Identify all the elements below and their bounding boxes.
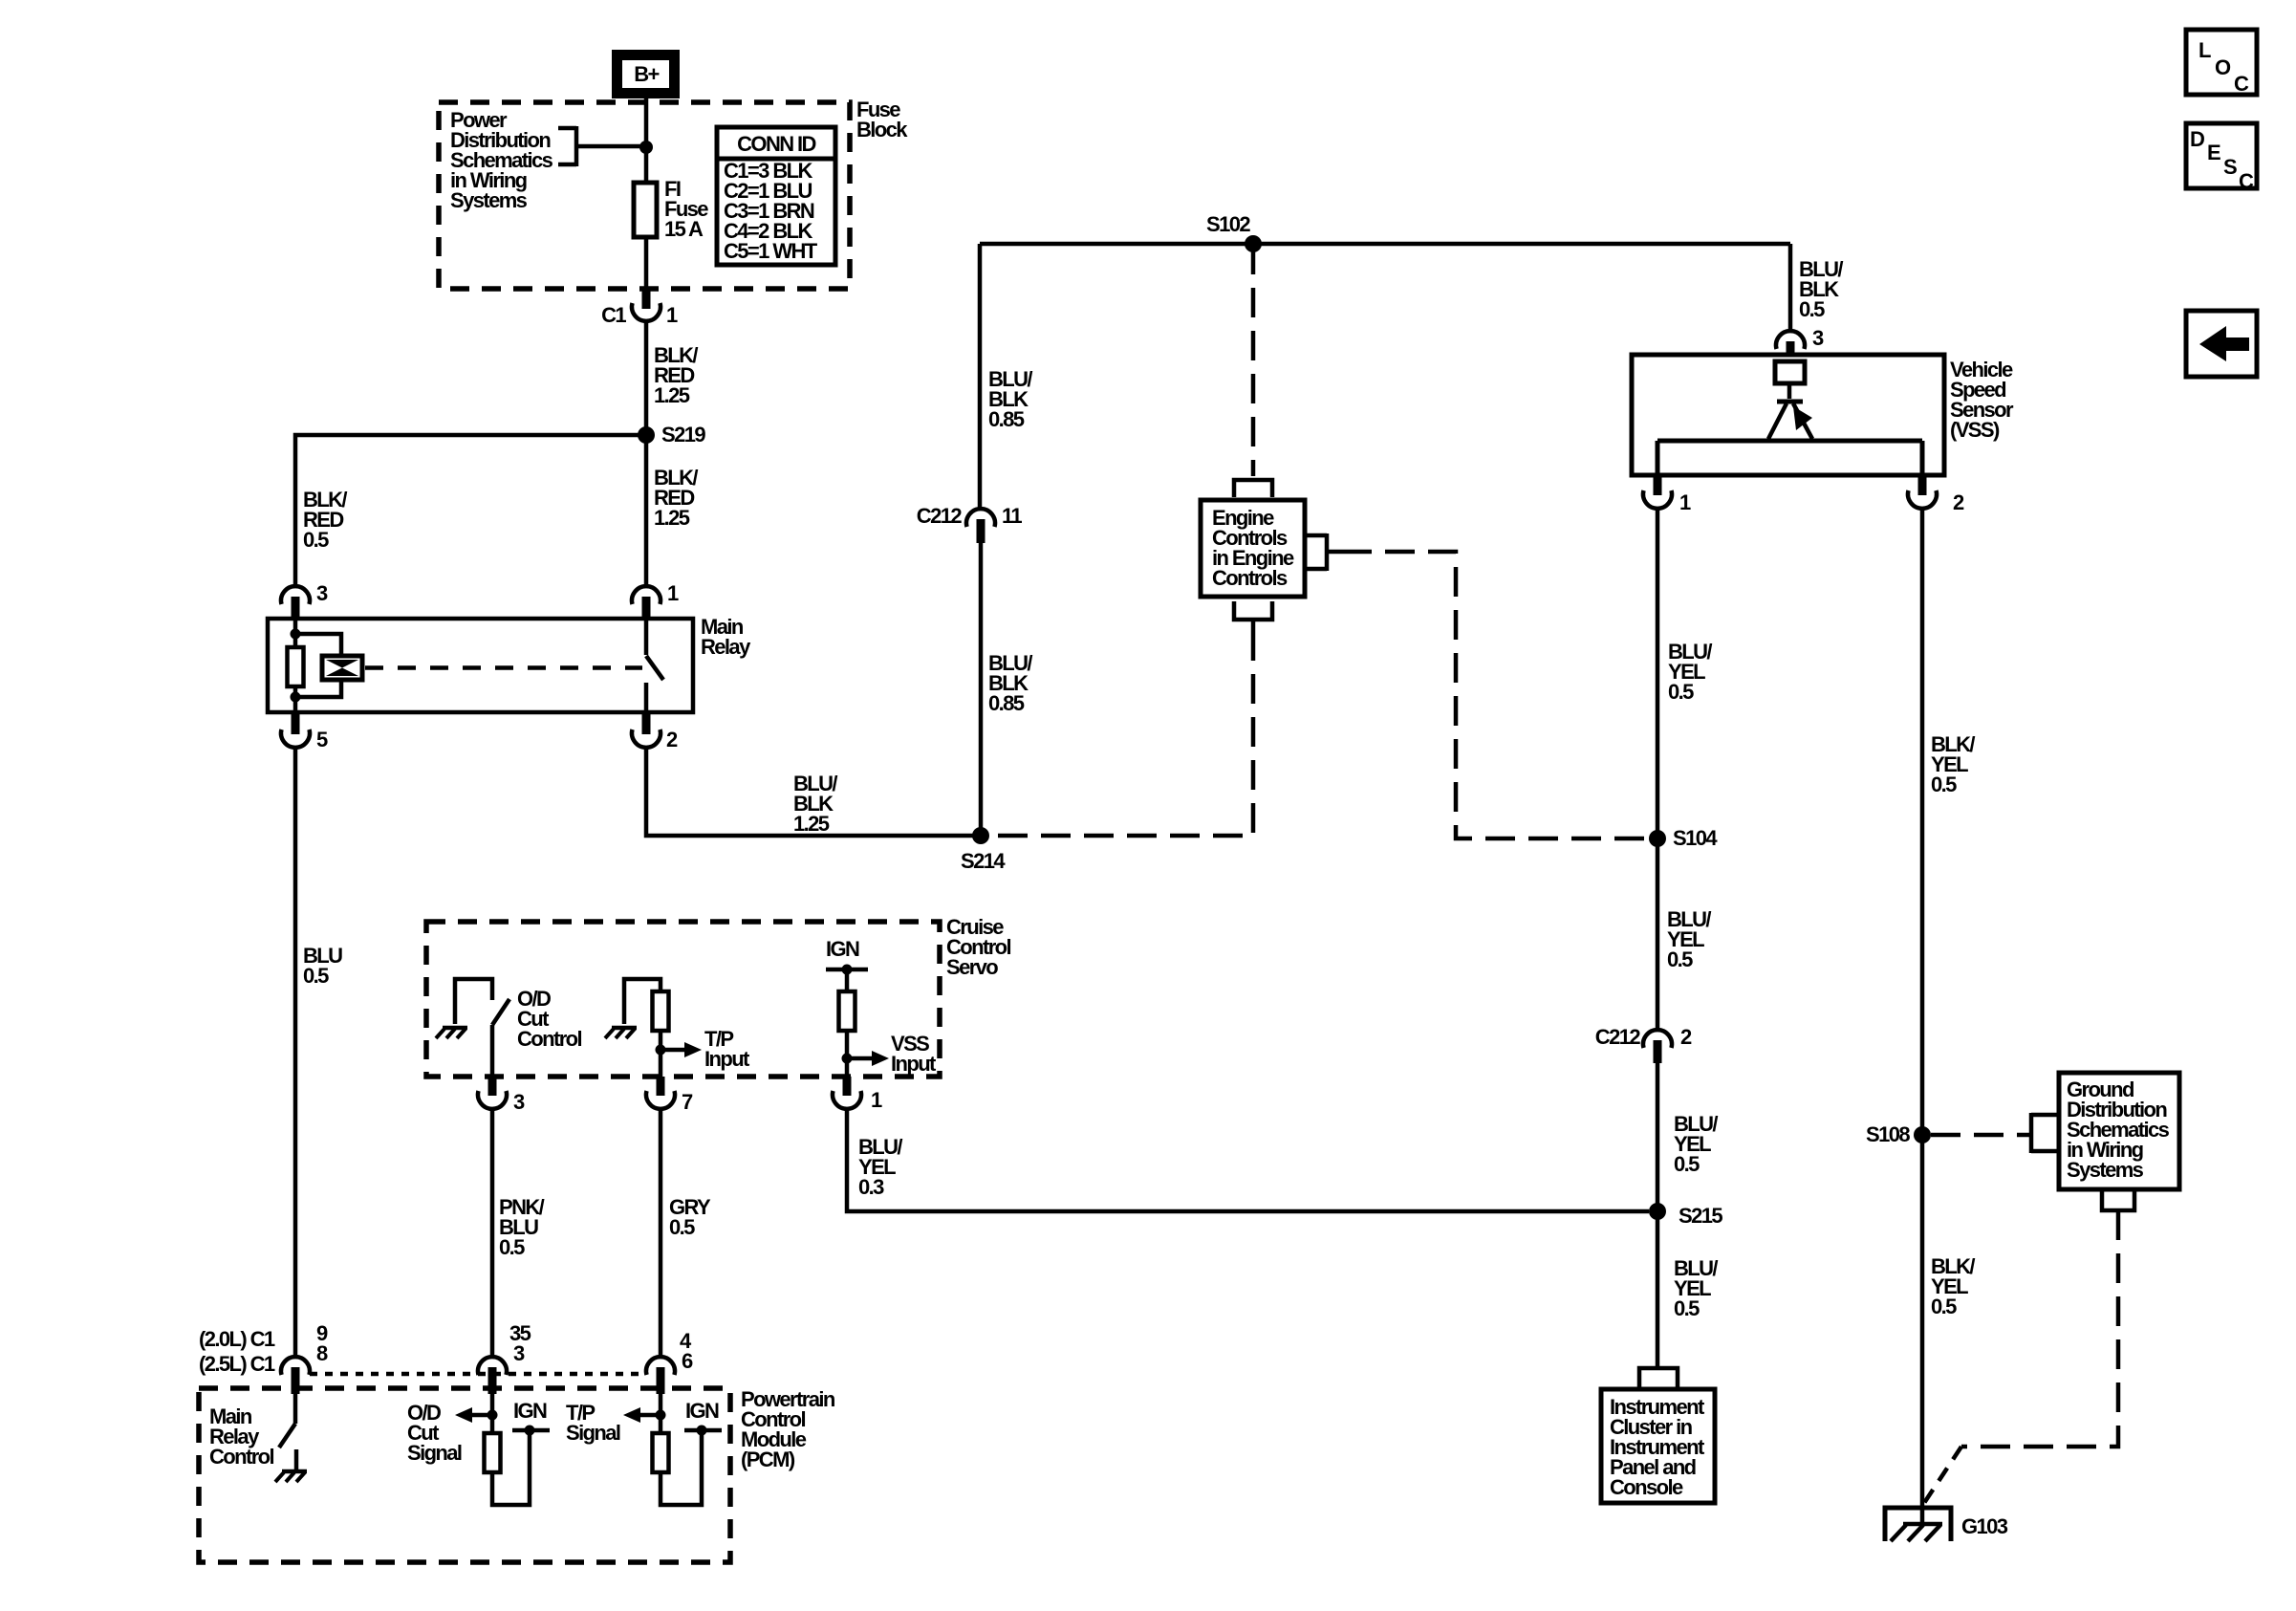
svg-text:Systems: Systems bbox=[2067, 1158, 2144, 1182]
connector pin 1 of main relay bbox=[632, 581, 679, 619]
svg-text:C212: C212 bbox=[917, 504, 963, 528]
wire relay pin 2 to S214, BLU/BLK 1.25 bbox=[646, 749, 981, 836]
svg-text:Servo: Servo bbox=[946, 955, 998, 979]
wire servo pin 3 to PCM 35/3, PNK/BLU 0.5 bbox=[490, 1110, 495, 1356]
PCM dashed box bbox=[199, 1388, 730, 1562]
dashed wire engine controls to S104 bbox=[1342, 552, 1649, 838]
wire servo pin 7 to PCM 4/6, GRY 0.5 bbox=[659, 1110, 663, 1356]
wire S215 to instrument cluster, BLU/YEL 0.5 bbox=[1656, 1211, 1660, 1368]
splice S215 bbox=[1649, 1203, 1666, 1220]
dashed actuation line bbox=[365, 665, 642, 670]
LOC box bbox=[2186, 30, 2257, 96]
wire VSS pin 2 to S108, BLK/YEL 0.5 bbox=[1920, 510, 1925, 1522]
svg-text:0.5: 0.5 bbox=[1799, 297, 1825, 321]
instrument cluster box bbox=[1601, 1389, 1715, 1503]
svg-text:C: C bbox=[2234, 72, 2249, 96]
svg-text:5: 5 bbox=[316, 728, 328, 751]
CONN ID table bbox=[717, 127, 835, 265]
connector pin 1 of VSS bbox=[1643, 475, 1691, 514]
label Vehicle Speed Sensor (VSS) bbox=[1950, 358, 2014, 442]
svg-text:Input: Input bbox=[891, 1052, 937, 1076]
label T/P Input bbox=[704, 1027, 750, 1071]
T/P input circuit bbox=[624, 979, 702, 1077]
svg-text:C: C bbox=[2239, 169, 2254, 193]
svg-text:3: 3 bbox=[513, 1090, 525, 1114]
svg-text:Signal: Signal bbox=[407, 1441, 462, 1465]
relay coil symbol (box with X) bbox=[322, 656, 362, 680]
svg-text:1.25: 1.25 bbox=[654, 383, 690, 407]
svg-text:1: 1 bbox=[1679, 490, 1691, 514]
ground distribution bracket bbox=[2031, 1113, 2057, 1153]
svg-text:3: 3 bbox=[513, 1341, 525, 1365]
dashed wire ground distribution to G103 bbox=[1961, 1210, 2118, 1447]
svg-text:B+: B+ bbox=[634, 62, 659, 86]
svg-text:Controls: Controls bbox=[1212, 566, 1288, 590]
reference bracket to power distribution bbox=[558, 126, 646, 166]
engine controls box bbox=[1201, 500, 1305, 597]
wire B+ to fuse bbox=[644, 96, 649, 183]
O/D cut control switch bbox=[455, 979, 509, 1077]
wire top bus BLU/BLK bbox=[980, 242, 1790, 247]
svg-text:C5=1 WHT: C5=1 WHT bbox=[724, 239, 818, 263]
dashed connector line C1 bbox=[310, 1372, 645, 1377]
svg-text:0.5: 0.5 bbox=[1931, 773, 1957, 796]
back arrow box bbox=[2186, 311, 2257, 377]
svg-text:L: L bbox=[2199, 38, 2211, 62]
svg-text:(2.5L) C1: (2.5L) C1 bbox=[199, 1352, 275, 1376]
svg-text:(PCM): (PCM) bbox=[741, 1448, 795, 1471]
svg-text:1: 1 bbox=[667, 581, 679, 605]
svg-text:0.5: 0.5 bbox=[303, 528, 329, 552]
node: junction dot on B+ feed bbox=[639, 141, 653, 154]
svg-text:CONN ID: CONN ID bbox=[737, 132, 815, 156]
wire C212/2 to S215, BLU/YEL 0.5 bbox=[1656, 1061, 1660, 1211]
svg-text:IGN: IGN bbox=[685, 1399, 719, 1423]
svg-text:S214: S214 bbox=[961, 849, 1006, 873]
O/D cut signal circuit bbox=[455, 1394, 550, 1505]
ground (O/D cut control) bbox=[436, 1028, 467, 1038]
VSS input circuit with IGN bbox=[826, 937, 889, 1077]
svg-text:1: 1 bbox=[871, 1088, 882, 1112]
connector pins 9/8 of PCM bbox=[281, 1321, 328, 1394]
connector C212 pin 2 bbox=[1595, 1025, 1692, 1063]
svg-text:3: 3 bbox=[316, 581, 328, 605]
cruise control servo dashed box bbox=[426, 922, 940, 1077]
dashed wire S102 down to engine controls bbox=[1251, 245, 1256, 476]
svg-text:Signal: Signal bbox=[566, 1421, 620, 1445]
label BLK/RED 0.5 bbox=[303, 488, 347, 552]
svg-text:6: 6 bbox=[682, 1349, 693, 1373]
splice S104 bbox=[1649, 830, 1666, 847]
svg-text:3: 3 bbox=[1812, 326, 1824, 350]
svg-text:S: S bbox=[2223, 155, 2237, 179]
label (2.0L) C1 / (2.5L) C1 bbox=[199, 1327, 275, 1376]
connector pin 3 of servo bbox=[478, 1077, 525, 1114]
wire C212/11 to S214, BLU/BLK 0.85 bbox=[979, 540, 984, 836]
svg-text:0.85: 0.85 bbox=[988, 691, 1025, 715]
svg-text:IGN: IGN bbox=[513, 1399, 547, 1423]
instrument cluster connector tab bbox=[1639, 1368, 1678, 1388]
label Cruise Control Servo bbox=[946, 915, 1010, 979]
engine controls bottom connector tab bbox=[1234, 601, 1272, 620]
svg-text:11: 11 bbox=[1002, 504, 1022, 528]
svg-text:2: 2 bbox=[666, 728, 678, 751]
connector C1 pin 1 bbox=[601, 290, 678, 327]
connector pins 4/6 of PCM bbox=[646, 1329, 693, 1394]
wire S104 to C212/2, BLU/YEL 0.5 bbox=[1656, 838, 1660, 1029]
connector pin 3 of VSS bbox=[1776, 326, 1824, 357]
wire relay pin 5 down, BLU 0.5 bbox=[293, 749, 298, 1356]
svg-text:C212: C212 bbox=[1595, 1025, 1641, 1049]
splice S214 bbox=[972, 827, 989, 844]
svg-text:S102: S102 bbox=[1206, 212, 1250, 236]
svg-text:7: 7 bbox=[682, 1090, 693, 1114]
svg-text:15 A: 15 A bbox=[664, 217, 704, 241]
svg-text:Block: Block bbox=[856, 118, 908, 142]
svg-text:0.5: 0.5 bbox=[1668, 680, 1694, 704]
fuse FI 15 A bbox=[634, 177, 708, 241]
connector pin 7 of servo bbox=[646, 1077, 693, 1114]
splice S102 bbox=[1245, 235, 1262, 252]
label T/P Signal bbox=[566, 1401, 620, 1445]
label VSS Input bbox=[891, 1032, 937, 1076]
connector pin 1 of servo bbox=[833, 1077, 882, 1112]
wire S219 branch left bbox=[295, 435, 646, 585]
svg-text:0.5: 0.5 bbox=[1674, 1152, 1700, 1176]
svg-text:S108: S108 bbox=[1866, 1122, 1910, 1146]
svg-text:S215: S215 bbox=[1679, 1204, 1722, 1228]
svg-text:Console: Console bbox=[1610, 1475, 1683, 1499]
engine controls top connector tab bbox=[1234, 480, 1272, 497]
label O/D Cut Signal bbox=[407, 1401, 462, 1465]
wire servo pin 1 to S215, BLU/YEL 0.3 bbox=[847, 1110, 1649, 1211]
ground (main relay control) bbox=[275, 1471, 307, 1482]
splice S108 bbox=[1914, 1126, 1931, 1143]
svg-text:0.5: 0.5 bbox=[1674, 1296, 1700, 1320]
svg-text:0.5: 0.5 bbox=[1931, 1295, 1957, 1318]
svg-text:0.5: 0.5 bbox=[1667, 947, 1693, 971]
svg-text:0.5: 0.5 bbox=[303, 964, 329, 988]
connector pin 2 of VSS bbox=[1908, 475, 1964, 514]
svg-text:(VSS): (VSS) bbox=[1950, 418, 2000, 442]
svg-text:E: E bbox=[2207, 141, 2220, 164]
connector pin 5 of main relay bbox=[281, 714, 328, 751]
wire S102 left leg down, BLU/BLK 0.85 bbox=[978, 244, 983, 508]
ground distribution box bbox=[2059, 1073, 2179, 1189]
ground (T/P input) bbox=[605, 1028, 637, 1038]
connector pin 3 of main relay bbox=[281, 581, 328, 619]
svg-text:2: 2 bbox=[1953, 490, 1964, 514]
connector pins 35/3 of PCM bbox=[478, 1321, 531, 1394]
relay coil circuit bbox=[288, 619, 342, 714]
main relay control switch bbox=[209, 1392, 296, 1469]
wire top bus to VSS pin 3, BLU/BLK 0.5 bbox=[1788, 244, 1793, 330]
wire S219 down to relay pin 1, BLK/RED 1.25 bbox=[644, 435, 649, 585]
svg-text:1.25: 1.25 bbox=[654, 506, 690, 530]
label Powertrain Control Module (PCM) bbox=[741, 1387, 835, 1471]
VSS pickup and transistor symbol bbox=[1657, 361, 1922, 475]
svg-text:0.5: 0.5 bbox=[499, 1235, 525, 1259]
svg-text:IGN: IGN bbox=[826, 937, 859, 961]
svg-text:Systems: Systems bbox=[450, 188, 528, 212]
svg-text:Input: Input bbox=[704, 1047, 750, 1071]
engine controls right bracket bbox=[1305, 533, 1342, 571]
svg-text:8: 8 bbox=[316, 1341, 328, 1365]
svg-text:O: O bbox=[2215, 55, 2231, 79]
svg-text:0.3: 0.3 bbox=[858, 1175, 884, 1199]
splice S219 bbox=[638, 426, 655, 444]
svg-text:G103: G103 bbox=[1961, 1514, 2008, 1538]
fuse block dashed box bbox=[439, 102, 850, 289]
svg-text:Control: Control bbox=[517, 1027, 581, 1051]
svg-text:C1: C1 bbox=[601, 303, 626, 327]
connector pin 2 of main relay bbox=[632, 714, 678, 751]
svg-text:0.5: 0.5 bbox=[669, 1215, 695, 1239]
T/P signal circuit bbox=[623, 1394, 722, 1505]
relay switch bbox=[646, 620, 663, 714]
dashed wire engine controls to S214 bbox=[1251, 620, 1256, 631]
connector C212 pin 11 bbox=[917, 504, 1023, 543]
svg-text:S219: S219 bbox=[661, 423, 705, 446]
svg-text:Relay: Relay bbox=[701, 635, 751, 659]
svg-text:1.25: 1.25 bbox=[793, 812, 830, 836]
wire C1 to S219, BLK/RED 1.25 bbox=[644, 322, 649, 435]
svg-text:D: D bbox=[2190, 127, 2204, 151]
dashed wire S108 to ground distribution bracket bbox=[1931, 1133, 2029, 1138]
svg-text:0.85: 0.85 bbox=[988, 407, 1025, 431]
main relay box bbox=[268, 619, 693, 712]
svg-text:(2.0L) C1: (2.0L) C1 bbox=[199, 1327, 275, 1351]
wire VSS pin 1 to S104, BLU/YEL 0.5 bbox=[1656, 510, 1660, 838]
ground distribution bottom tab bbox=[2102, 1189, 2134, 1210]
ground G103 bbox=[1885, 1508, 2008, 1541]
svg-text:Control: Control bbox=[209, 1445, 273, 1469]
battery B+ terminal bbox=[617, 55, 675, 94]
wire fuse to C1 bbox=[644, 237, 649, 291]
svg-text:1: 1 bbox=[666, 303, 678, 327]
label O/D Cut Control bbox=[517, 987, 581, 1051]
svg-text:2: 2 bbox=[1680, 1025, 1692, 1049]
VSS box bbox=[1632, 355, 1944, 475]
label Power Distribution Schematics in Wiring Systems bbox=[450, 108, 553, 212]
DESC box bbox=[2186, 123, 2257, 193]
svg-text:S104: S104 bbox=[1673, 826, 1718, 850]
label BLK/YEL 0.5 lower bbox=[1931, 1254, 1975, 1318]
